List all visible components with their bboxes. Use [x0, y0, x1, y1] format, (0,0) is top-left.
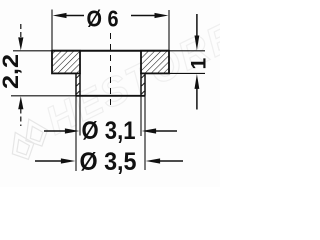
dim 1 bottom arrow: [195, 74, 200, 89]
dim Ø3,5 arrow right: [146, 158, 161, 163]
flange right section (hatched): [141, 51, 169, 74]
barrel left wall: [75, 73, 77, 95]
svg-text:1: 1: [188, 58, 211, 70]
dim Ø6 arrow right: [155, 13, 169, 18]
dim 1 top arrow: [196, 14, 198, 37]
watermark: [0, 13, 245, 164]
dim Ø3,1 extension line right: [140, 96, 142, 136]
flange top line (extended for 2,2 and 1 dims): [13, 50, 205, 52]
dim Ø6 arrow left: [53, 13, 67, 18]
dim Ø3,5 extension line left: [75, 96, 77, 171]
dim Ø6 extension line right: [168, 10, 170, 51]
dim Ø3,5 arrow left: [35, 160, 63, 162]
svg-text:Ø 3,5: Ø 3,5: [80, 148, 137, 176]
dim 2,2 top arrow: [18, 37, 23, 50]
dim Ø6 extension line left: [51, 10, 53, 51]
dim Ø3,1 arrow right: [142, 128, 157, 133]
dim Ø3,1 extension line left: [79, 96, 81, 136]
centerline: [110, 33, 112, 107]
barrel bottom line (extended left for 2,2 dim): [11, 95, 76, 97]
barrel right wall: [140, 73, 142, 95]
flange left section (hatched): [52, 51, 80, 74]
svg-text:Ø 3,1: Ø 3,1: [82, 117, 136, 145]
flange bottom extension (right, for dim 1): [169, 72, 205, 74]
svg-text:Ø 6: Ø 6: [87, 6, 119, 32]
dim 2,2 bottom arrow: [18, 96, 23, 109]
dim Ø3,5 extension line right: [144, 96, 146, 170]
dim Ø3,1 arrow left: [44, 130, 67, 132]
svg-text:2,2: 2,2: [0, 54, 23, 89]
